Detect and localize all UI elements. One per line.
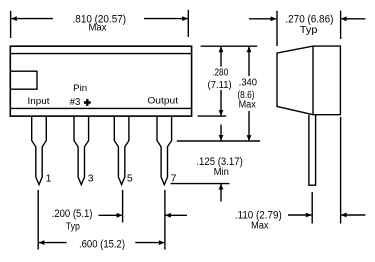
- dimension .200 outside arrow at pin7 line: [165, 214, 187, 216]
- svg-text:7: 7: [171, 173, 177, 185]
- body top seam line: [10, 53, 191, 55]
- svg-text:Max: Max: [239, 100, 256, 111]
- pin 5: [114, 117, 129, 185]
- svg-text:Max: Max: [89, 23, 107, 34]
- lead centre extension line: [311, 192, 313, 224]
- side view mold seam: [312, 46, 314, 115]
- svg-text:.110 (2.79): .110 (2.79): [235, 209, 282, 221]
- svg-text:Min: Min: [214, 167, 229, 178]
- pin 3: [74, 117, 89, 185]
- dimension .270 extension line left: [276, 11, 278, 46]
- pin 7 extension line: [164, 190, 166, 250]
- dimension .270 right outside arrow: [341, 18, 365, 20]
- dimension .270 extension line right: [340, 11, 342, 39]
- side view lead: [309, 115, 316, 185]
- pin 1 extension line: [37, 190, 39, 250]
- svg-text:Pin: Pin: [73, 83, 87, 94]
- dimension .600 line right segment: [135, 242, 164, 244]
- leader from pin tips: [171, 183, 230, 185]
- dimension .810 extension line left: [10, 11, 12, 38]
- dimension .280 upper arrow: [220, 47, 222, 67]
- svg-text:.600 (15.2): .600 (15.2): [79, 238, 125, 250]
- svg-text:1: 1: [46, 173, 52, 185]
- pin-1 index tab: [10, 71, 37, 89]
- pin 1: [32, 117, 47, 185]
- svg-text:Input: Input: [28, 96, 50, 107]
- pin 5 extension line: [122, 190, 124, 223]
- dimension .810 extension line right: [187, 10, 189, 37]
- dimension .270 left outside arrow: [249, 18, 276, 20]
- svg-text:.270 (6.86): .270 (6.86): [285, 13, 333, 25]
- body back extension line: [340, 117, 342, 224]
- svg-text:.340: .340: [239, 77, 258, 89]
- dimension .340 upper arrow: [248, 47, 250, 76]
- leader from pin shoulder: [177, 140, 260, 142]
- svg-text:(7.11): (7.11): [208, 79, 232, 91]
- leader from body bottom edge: [198, 115, 227, 117]
- svg-text:Max: Max: [251, 221, 269, 232]
- svg-text:Output: Output: [147, 96, 178, 107]
- dimension .110 left arrow: [288, 214, 311, 216]
- dimension .200 arrow to pin5 line: [99, 214, 123, 216]
- dimension .810 line left segment: [11, 18, 53, 20]
- dimension .600 line left segment: [39, 242, 67, 244]
- plus marker after #3: [84, 99, 91, 106]
- svg-text:.125 (3.17): .125 (3.17): [196, 156, 242, 168]
- svg-text:.280: .280: [212, 67, 228, 79]
- dimension .280 lower arrow: [220, 90, 222, 116]
- dimension .110 right outside arrow: [341, 214, 365, 216]
- svg-text:.200 (5.1): .200 (5.1): [52, 208, 93, 220]
- pin 7: [157, 117, 172, 185]
- dimension .340 lower arrow: [248, 111, 250, 141]
- package body (front view): [10, 46, 191, 116]
- svg-text:#3: #3: [70, 96, 81, 108]
- body bottom seam line: [10, 107, 191, 109]
- svg-text:3: 3: [88, 173, 94, 185]
- side view body outline: [277, 46, 340, 115]
- dimension .125 upper outside arrow: [220, 125, 222, 141]
- svg-text:Typ: Typ: [300, 25, 318, 36]
- svg-text:5: 5: [127, 173, 133, 185]
- svg-text:Typ: Typ: [66, 222, 80, 233]
- dimension .810 line right segment: [144, 18, 188, 20]
- leader from body top edge: [201, 45, 258, 47]
- dimension .125 lower outside arrow: [220, 184, 222, 202]
